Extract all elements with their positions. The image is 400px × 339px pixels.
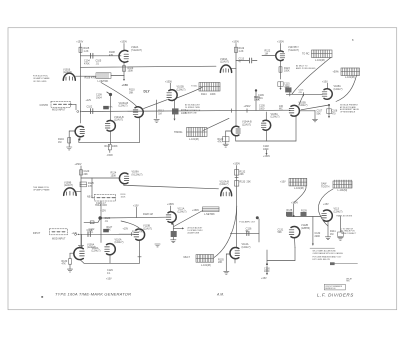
svg-text:50K: 50K xyxy=(278,231,283,234)
svg-text:C102: C102 xyxy=(87,106,93,109)
svg-text:(12AU7): (12AU7) xyxy=(64,184,73,187)
svg-text:47K: 47K xyxy=(109,54,114,57)
svg-text:150K: 150K xyxy=(128,70,134,73)
svg-text:+15V: +15V xyxy=(261,277,267,280)
svg-text:L-101(M): L-101(M) xyxy=(294,187,304,190)
svg-text:1M: 1M xyxy=(330,233,333,236)
svg-text:(12AU7): (12AU7) xyxy=(242,123,251,126)
svg-text:(12AU7): (12AU7) xyxy=(299,104,308,107)
svg-text:+150V: +150V xyxy=(244,105,251,108)
svg-text:DL SPEED THRU: DL SPEED THRU xyxy=(185,107,201,109)
svg-text:(12AU7): (12AU7) xyxy=(178,210,187,213)
svg-text:TIMING: TIMING xyxy=(174,131,183,134)
svg-text:R113: R113 xyxy=(105,145,111,148)
svg-text:R117: R117 xyxy=(286,86,292,88)
svg-text:+150V: +150V xyxy=(263,155,270,158)
svg-text:47K: 47K xyxy=(62,263,67,266)
svg-text:+15V: +15V xyxy=(323,203,329,206)
svg-text:INPUT: INPUT xyxy=(33,232,41,235)
svg-text:+15V: +15V xyxy=(133,205,139,208)
svg-text:2200: 2200 xyxy=(315,235,321,238)
svg-text:TO AC: TO AC xyxy=(191,85,198,88)
svg-text:1M: 1M xyxy=(265,52,268,55)
svg-text:OF RESISTANCE: OF RESISTANCE xyxy=(340,111,356,114)
svg-text:39K: 39K xyxy=(129,91,134,94)
svg-text:DLY: DLY xyxy=(144,90,151,94)
svg-text:L-101(M): L-101(M) xyxy=(338,189,348,192)
svg-text:L.F. DIVIDERS: L.F. DIVIDERS xyxy=(317,292,354,297)
svg-text:100K: 100K xyxy=(121,197,126,199)
svg-text:470K: 470K xyxy=(84,62,90,65)
svg-text:MOD INPUT: MOD INPUT xyxy=(52,109,66,112)
svg-text:+15V: +15V xyxy=(123,227,129,230)
svg-text:MOD INPUT: MOD INPUT xyxy=(52,238,66,241)
svg-text:.001: .001 xyxy=(258,97,263,100)
svg-text:A DASH LINE: A DASH LINE xyxy=(188,232,200,235)
svg-text:-150V: -150V xyxy=(107,154,114,157)
svg-text:OF 2ND GRID: OF 2ND GRID xyxy=(33,81,47,83)
svg-text:20K: 20K xyxy=(240,173,245,176)
svg-text:+15V: +15V xyxy=(280,180,286,183)
svg-text:+150V: +150V xyxy=(233,163,240,166)
svg-text:P120 AMPL OUT: P120 AMPL OUT xyxy=(239,220,256,223)
svg-text:100K: 100K xyxy=(112,145,118,148)
svg-text:(12AU7): (12AU7) xyxy=(220,61,229,64)
svg-text:R131 47K: R131 47K xyxy=(132,230,143,233)
svg-text:MC: MC xyxy=(279,108,283,111)
svg-text:1M: 1M xyxy=(158,112,161,115)
svg-text:100K: 100K xyxy=(284,70,290,73)
svg-text:R139: R139 xyxy=(301,209,307,212)
svg-text:THE SAME POS.: THE SAME POS. xyxy=(33,186,50,189)
svg-text:A DASH LINE: A DASH LINE xyxy=(185,112,197,115)
svg-text:+150V: +150V xyxy=(192,209,199,212)
svg-text:+150V: +150V xyxy=(120,40,127,43)
svg-text:L-101(M): L-101(M) xyxy=(315,59,325,62)
svg-text:AMPL POSN UNGND: AMPL POSN UNGND xyxy=(296,67,316,70)
svg-text:(12AU7): (12AU7) xyxy=(63,71,72,74)
svg-text:C124: C124 xyxy=(87,229,93,232)
svg-text:EXT LEVEL BELOW: EXT LEVEL BELOW xyxy=(313,259,331,261)
svg-text:20K: 20K xyxy=(247,181,252,184)
svg-text:(12AU7): (12AU7) xyxy=(143,227,152,230)
svg-text:(12AU7): (12AU7) xyxy=(271,116,280,119)
svg-text:(12AU7): (12AU7) xyxy=(119,105,128,108)
svg-text:1.2K: 1.2K xyxy=(84,50,89,53)
svg-text:50K: 50K xyxy=(317,112,322,115)
svg-text:+14V: +14V xyxy=(72,232,78,235)
svg-text:1000: 1000 xyxy=(259,107,265,110)
svg-text:+50%: +50% xyxy=(333,70,340,73)
svg-text:OVER RANGE WITH NO LOADING: OVER RANGE WITH NO LOADING xyxy=(313,252,344,255)
svg-text:47K: 47K xyxy=(218,140,223,143)
svg-text:(12AU7): (12AU7) xyxy=(114,119,123,122)
svg-text:+12V: +12V xyxy=(86,99,92,102)
svg-text:(12AU7): (12AU7) xyxy=(242,246,251,249)
svg-text:FOR IDLE POS.: FOR IDLE POS. xyxy=(33,76,49,78)
svg-text:+150V: +150V xyxy=(291,202,298,205)
svg-text:R133: R133 xyxy=(240,181,246,184)
svg-text:+150V: +150V xyxy=(232,40,239,43)
svg-text:R128 1M: R128 1M xyxy=(143,213,153,216)
svg-text:(12AU7): (12AU7) xyxy=(92,250,101,253)
svg-text:(½12AU7): (½12AU7) xyxy=(132,172,143,176)
svg-text:AT IDLE ADJUST: AT IDLE ADJUST xyxy=(185,104,201,107)
svg-text:(12BH6): (12BH6) xyxy=(301,227,310,230)
svg-text:OF AMPL PHASE: OF AMPL PHASE xyxy=(33,189,50,192)
svg-text:L-101(M): L-101(M) xyxy=(201,264,211,267)
svg-text:TOOTH: TOOTH xyxy=(321,185,330,188)
svg-text:(12AU7): (12AU7) xyxy=(334,210,343,213)
svg-text:+150V: +150V xyxy=(277,40,284,43)
svg-text:47K: 47K xyxy=(109,107,113,109)
svg-text:TYPE 160A TIME-MARK GENERATOR: TYPE 160A TIME-MARK GENERATOR xyxy=(55,292,131,297)
svg-text:(12AU7): (12AU7) xyxy=(115,241,124,244)
svg-text:NE-2: NE-2 xyxy=(87,195,93,198)
svg-text:+150V: +150V xyxy=(165,80,172,83)
svg-text:1000: 1000 xyxy=(264,270,270,273)
svg-text:THANK NO WORK: THANK NO WORK xyxy=(336,214,353,217)
svg-text:DASH CONNECT: DASH CONNECT xyxy=(341,232,357,235)
svg-text:150K: 150K xyxy=(111,174,117,177)
svg-text:CONTR: CONTR xyxy=(40,104,49,107)
svg-text:WAIT STRADDLE: WAIT STRADDLE xyxy=(185,109,201,112)
svg-text:470: 470 xyxy=(332,112,337,115)
svg-text:R138: R138 xyxy=(287,209,293,212)
svg-text:(½12AU7): (½12AU7) xyxy=(131,48,142,52)
svg-text:+150: +150 xyxy=(122,83,129,87)
svg-text:TO RC: TO RC xyxy=(302,52,310,55)
svg-text:20K: 20K xyxy=(84,173,89,176)
svg-text:MULT: MULT xyxy=(184,256,191,259)
svg-text:100K: 100K xyxy=(210,93,216,96)
svg-text:+15V: +15V xyxy=(322,80,328,83)
svg-text:1000: 1000 xyxy=(263,148,269,151)
svg-text:47K: 47K xyxy=(88,185,93,188)
svg-text:R106 470K: R106 470K xyxy=(85,76,97,79)
svg-text:+15V: +15V xyxy=(100,209,106,212)
svg-text:+150V: +150V xyxy=(167,203,174,206)
svg-text:(12AU7): (12AU7) xyxy=(220,183,229,186)
svg-text:1M: 1M xyxy=(58,141,61,144)
svg-text:20K: 20K xyxy=(218,261,223,264)
svg-text:L-NETWK: L-NETWK xyxy=(98,80,109,83)
svg-text:SERIES 100: SERIES 100 xyxy=(325,288,335,290)
svg-text:+150V: +150V xyxy=(75,163,82,166)
svg-text:1N34: 1N34 xyxy=(96,97,102,100)
svg-text:L-NETWK: L-NETWK xyxy=(204,213,215,216)
svg-text:1.2K: 1.2K xyxy=(239,50,244,53)
svg-text:ADJ: ADJ xyxy=(295,46,299,49)
svg-text:+150V: +150V xyxy=(76,40,83,43)
svg-text:HOLD OFF: HOLD OFF xyxy=(95,204,108,207)
svg-text:A.M.: A.M. xyxy=(216,293,224,297)
svg-text:(12AU7): (12AU7) xyxy=(177,88,186,91)
svg-text:R114: R114 xyxy=(201,93,207,96)
svg-text:OF AMPL PHASE: OF AMPL PHASE xyxy=(33,77,50,80)
svg-text:L-101(M): L-101(M) xyxy=(189,138,199,141)
svg-text:L-101(M): L-101(M) xyxy=(345,76,355,79)
svg-text:+15V: +15V xyxy=(106,278,112,281)
svg-text:20K: 20K xyxy=(107,229,112,232)
svg-text:(12AU7): (12AU7) xyxy=(334,88,343,91)
